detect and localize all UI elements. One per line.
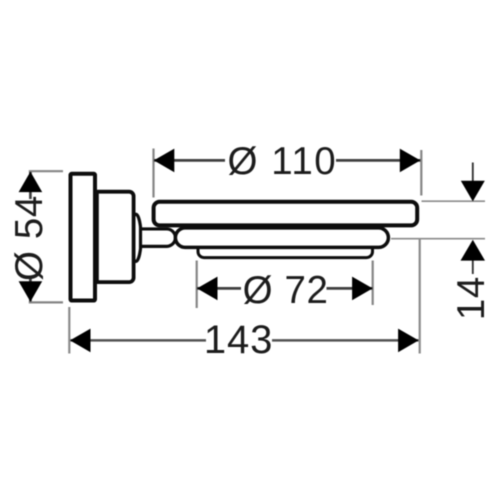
svg-text:Ø 72: Ø 72 bbox=[243, 269, 329, 312]
svg-text:Ø 110: Ø 110 bbox=[228, 140, 338, 183]
svg-text:143: 143 bbox=[204, 318, 273, 362]
svg-text:14: 14 bbox=[450, 276, 493, 320]
svg-text:Ø 54: Ø 54 bbox=[8, 195, 51, 281]
